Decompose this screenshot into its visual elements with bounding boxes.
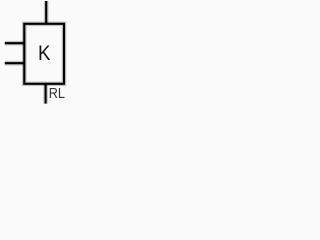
wire left pin A [5,41,25,46]
wire top pin [44,1,49,24]
svg-text:K: K [38,42,51,65]
relay coil K body [24,24,64,84]
wire left pin B [5,61,25,66]
wire bottom pin [43,84,48,104]
svg-text:RL: RL [49,86,65,102]
